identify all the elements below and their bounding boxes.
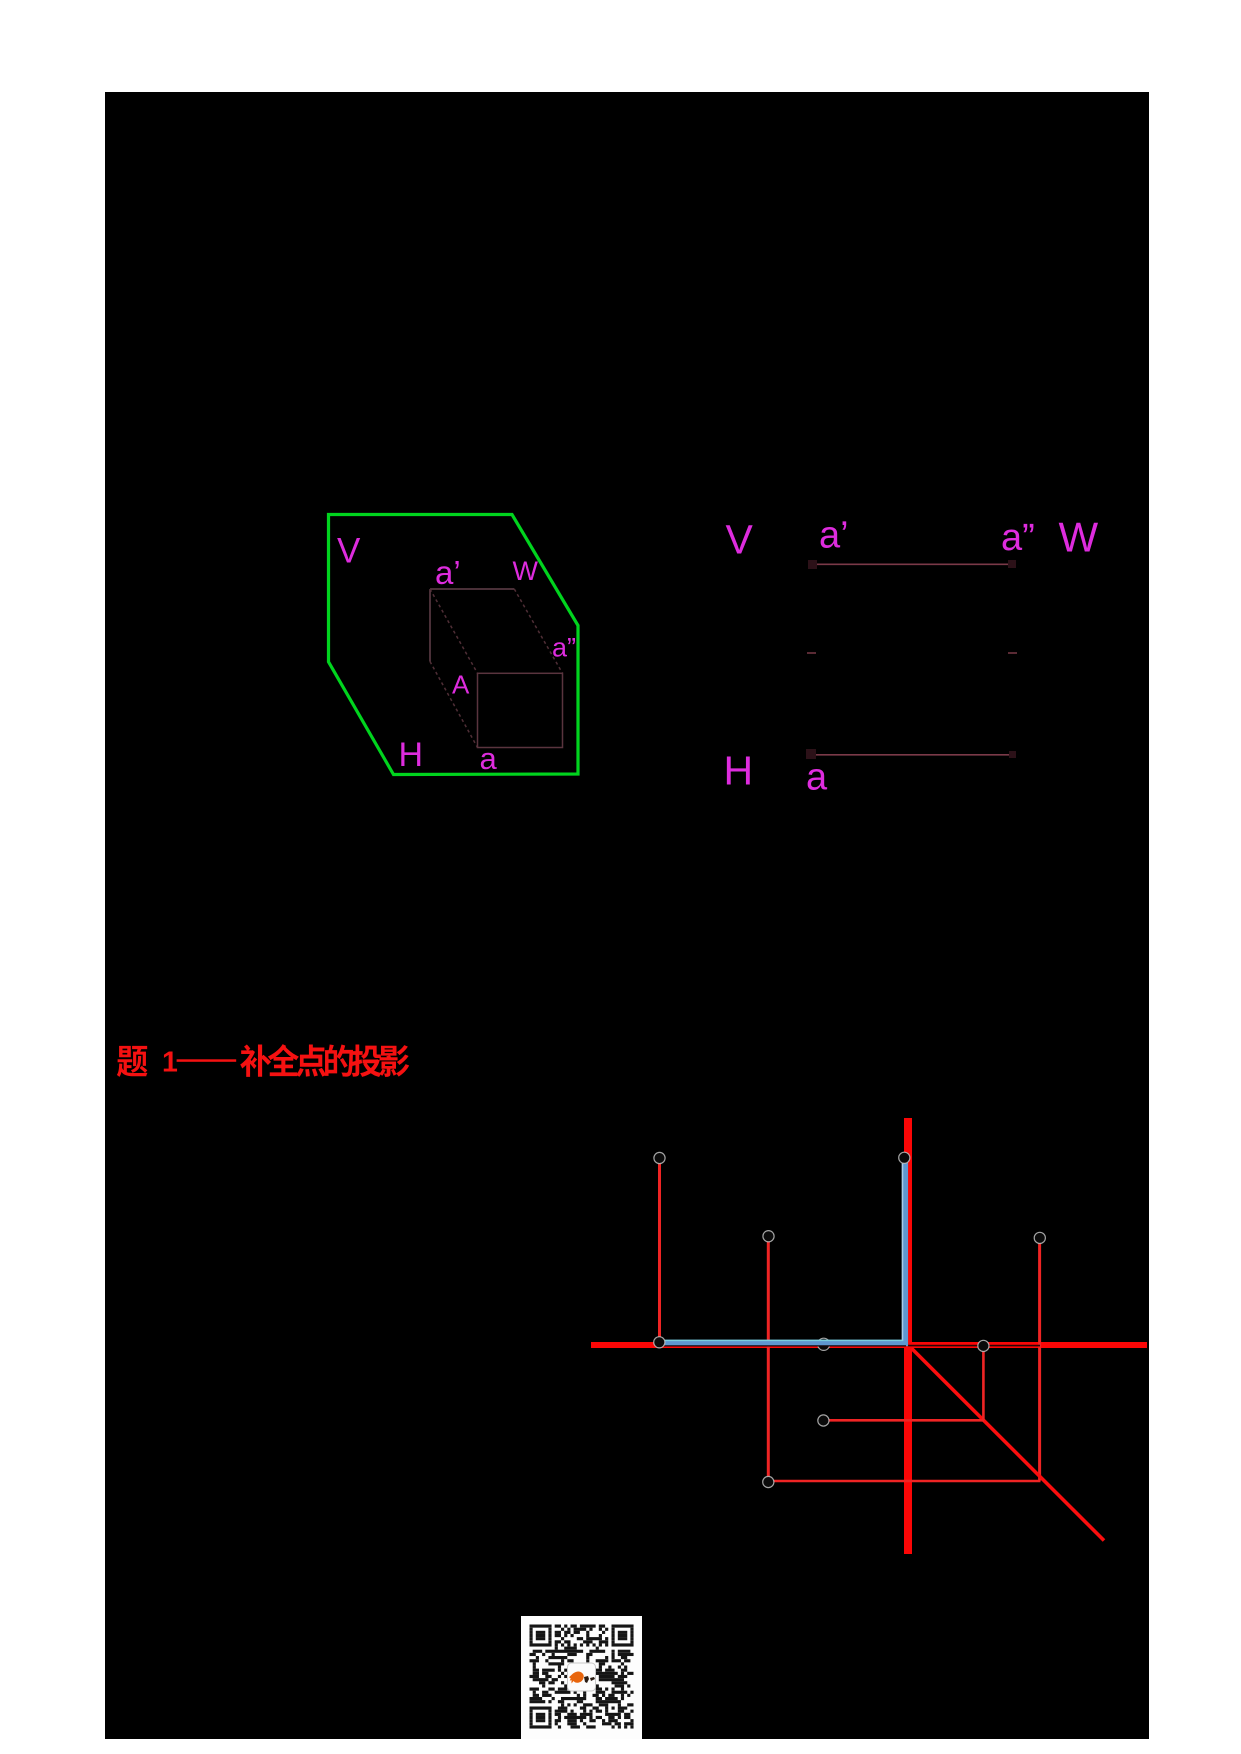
blue polyline highlight (a' path): [660, 1162, 905, 1344]
box projector diagonal B-D (dashed): [514, 589, 562, 673]
point dot on axis middle (under blue): [818, 1338, 830, 1350]
svg-text:a’: a’: [819, 515, 849, 557]
box projector diagonal G-F (dashed): [430, 662, 478, 748]
blue vertical pale left edge: [902, 1162, 904, 1342]
box front square face C-D-E-F: [478, 673, 563, 747]
svg-text:A: A: [452, 669, 470, 699]
short vertical from axis dot to middle line: [982, 1346, 985, 1420]
black slide area: [105, 92, 1149, 1739]
svg-text:V: V: [337, 532, 361, 571]
svg-text:a: a: [480, 741, 498, 776]
QR center logo white box: [568, 1663, 596, 1691]
thin vertical line 1 (left): [658, 1160, 661, 1342]
svg-text:1: 1: [162, 1046, 178, 1078]
svg-text:a’: a’: [435, 554, 461, 591]
thin horizontal bottom line: [768, 1480, 1040, 1483]
thick vertical axis: [904, 1118, 912, 1554]
point dot bottom of line2: [763, 1476, 774, 1487]
box top edge a'-B: [430, 588, 514, 590]
svg-text:a: a: [806, 756, 828, 798]
top line right end marker: [1008, 560, 1016, 568]
svg-text:H: H: [724, 747, 754, 793]
45-degree transfer diagonal: [912, 1348, 1104, 1540]
svg-text:H: H: [399, 736, 424, 774]
middle left tick: [807, 652, 816, 654]
title long dash &#8212;&#8212;: [177, 1059, 237, 1062]
point dot line2 top: [763, 1231, 774, 1242]
thin vertical line right (a'' drop): [1038, 1240, 1041, 1481]
QR white background: [521, 1616, 642, 1739]
bottom projection line a-ax: [816, 754, 1012, 756]
top line left end marker: [808, 560, 817, 569]
dark overlay stripe on axis (origin to dot): [908, 1345, 1040, 1347]
QR modules: [530, 1625, 634, 1729]
thin horizontal middle line: [823, 1419, 984, 1422]
middle right tick: [1008, 652, 1017, 654]
thin vertical line 2: [767, 1238, 770, 1482]
bottom line left end marker: [806, 749, 816, 759]
bottom line right end marker: [1009, 751, 1016, 758]
blue horizontal cyan top edge: [660, 1339, 904, 1341]
point dot a'' top right: [1034, 1232, 1045, 1243]
thick horizontal axis: [591, 1342, 1147, 1348]
point dot on axis right: [978, 1340, 989, 1351]
svg-text:a”: a”: [552, 632, 576, 662]
point dot b' top-left: [654, 1152, 665, 1163]
point dot ax left on axis: [654, 1337, 665, 1348]
title character paths 题/补全点的投影: [117, 1046, 148, 1077]
svg-text:W: W: [1059, 513, 1099, 560]
top projection line a'-a'': [816, 563, 1012, 565]
point dot a' on blue top: [899, 1152, 910, 1163]
box projector diagonal a'-C (dashed): [430, 589, 478, 673]
blue horizontal dark bottom edge: [661, 1345, 906, 1347]
svg-text:W: W: [513, 556, 539, 586]
QR logo dark glyphs: [584, 1676, 595, 1683]
box left vertical edge a'-G: [429, 589, 431, 662]
point dot middle line left end: [818, 1415, 829, 1426]
hexagon V-H-W plane outline (green): [329, 515, 579, 775]
QR logo goldfish (orange): [569, 1671, 584, 1683]
svg-text:a”: a”: [1001, 517, 1035, 559]
svg-text:V: V: [726, 517, 754, 563]
